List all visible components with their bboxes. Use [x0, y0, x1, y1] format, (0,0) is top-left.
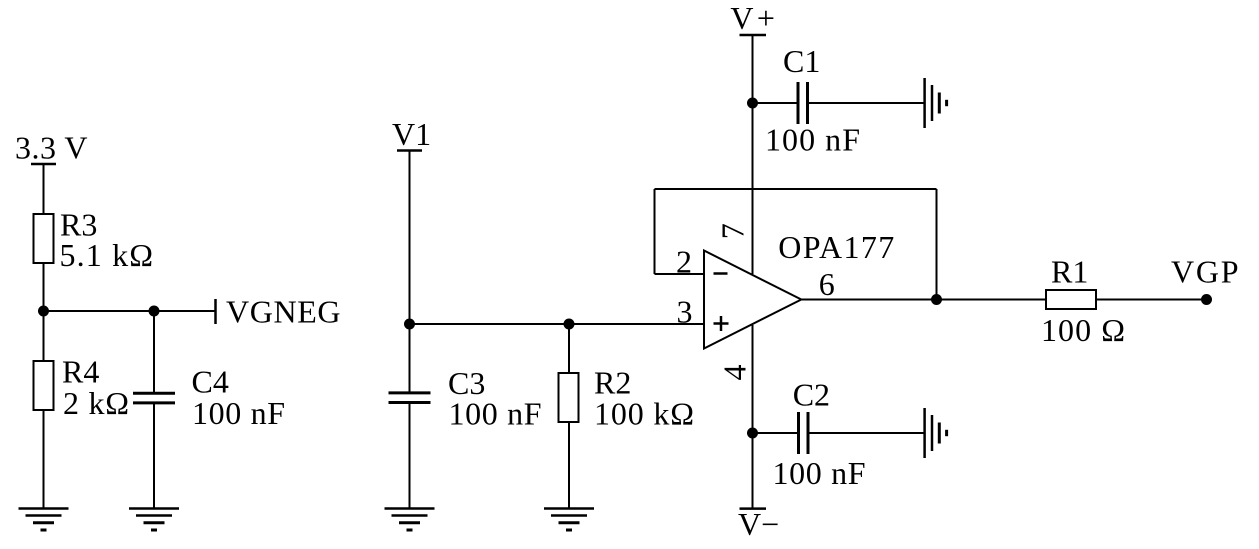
wire — [568, 422, 570, 509]
wire — [43, 410, 45, 509]
wire — [654, 189, 656, 274]
supply terminal V1 — [397, 149, 422, 152]
svg-text:100 nF: 100 nF — [192, 395, 285, 431]
svg-text:4: 4 — [716, 365, 752, 381]
wire — [409, 151, 411, 325]
wire — [153, 403, 155, 509]
wire — [752, 325, 754, 509]
terminal VGNEG — [216, 294, 341, 330]
ground — [129, 509, 179, 531]
wire — [752, 35, 754, 274]
capacitor C2 — [773, 376, 866, 491]
resistor R4 — [34, 354, 130, 422]
wire — [153, 311, 155, 393]
svg-text:100 Ω: 100 Ω — [1041, 312, 1125, 348]
svg-text:VGP: VGP — [1171, 254, 1239, 290]
wire — [753, 432, 799, 434]
op-amp U1 OPA177 — [704, 229, 894, 349]
wire — [43, 263, 45, 361]
ground — [925, 408, 947, 458]
ground — [19, 509, 69, 531]
terminal VGP — [1171, 254, 1239, 305]
wire — [655, 273, 706, 275]
svg-text:OPA177: OPA177 — [778, 229, 894, 265]
svg-text:V−: V− — [738, 506, 779, 542]
supply terminal 3.3 V — [31, 163, 56, 166]
capacitor C4 — [133, 364, 285, 432]
wire — [1096, 299, 1207, 301]
ground — [925, 78, 947, 128]
svg-text:C1: C1 — [783, 43, 820, 79]
wire — [655, 188, 937, 190]
node junction C1 — [747, 98, 758, 109]
wire — [936, 189, 938, 300]
ground — [385, 509, 435, 531]
svg-text:R1: R1 — [1051, 254, 1088, 290]
wire — [808, 102, 925, 104]
svg-text:5.1 kΩ: 5.1 kΩ — [60, 237, 154, 273]
supply terminal V- — [738, 506, 779, 542]
wire — [44, 310, 216, 312]
node junction output — [931, 294, 942, 305]
wire — [409, 324, 411, 393]
node A — [38, 306, 49, 317]
wire — [568, 324, 570, 373]
svg-text:100 nF: 100 nF — [773, 455, 866, 491]
svg-text:C2: C2 — [793, 376, 830, 412]
svg-text:2: 2 — [676, 244, 692, 280]
svg-text:V1: V1 — [392, 116, 431, 152]
svg-text:V+: V+ — [730, 0, 775, 36]
node junction R2 — [564, 319, 575, 330]
svg-text:2 kΩ: 2 kΩ — [63, 385, 129, 421]
svg-text:100 kΩ: 100 kΩ — [594, 396, 694, 432]
node junction C4 — [149, 306, 160, 317]
capacitor C1 — [765, 43, 860, 158]
wire — [753, 102, 799, 104]
svg-text:3: 3 — [677, 293, 693, 329]
resistor R3 — [34, 207, 154, 274]
resistor R1 — [1041, 254, 1125, 348]
node junction C2 — [747, 428, 758, 439]
svg-text:VGNEG: VGNEG — [226, 294, 341, 330]
ground — [544, 509, 594, 531]
supply terminal V+ — [740, 34, 767, 37]
node junction V1/C3 — [404, 319, 415, 330]
capacitor C3 — [389, 365, 542, 432]
resistor R2 — [559, 365, 695, 432]
wire — [801, 299, 1046, 301]
svg-text:6: 6 — [819, 266, 835, 302]
wire — [43, 164, 45, 214]
wire — [409, 403, 411, 509]
svg-text:100 nF: 100 nF — [449, 396, 542, 432]
svg-text:7: 7 — [714, 223, 750, 239]
svg-text:3.3 V: 3.3 V — [15, 130, 88, 166]
svg-text:100 nF: 100 nF — [765, 122, 860, 158]
wire — [808, 432, 925, 434]
wire — [410, 323, 706, 325]
